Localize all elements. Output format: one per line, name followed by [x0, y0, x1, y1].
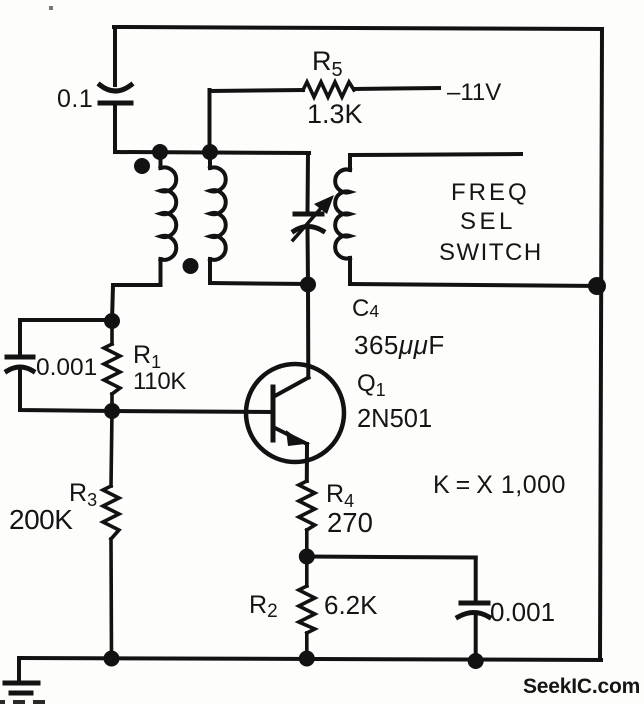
variable capacitor C4 — [294, 214, 323, 231]
wire right cap bottom — [474, 615, 478, 660]
node C4 bottom junction — [300, 277, 316, 293]
node secondary top — [202, 144, 218, 160]
capacitor 0.001 (left) — [7, 357, 33, 371]
transistor Q1 body circle — [246, 364, 344, 462]
wire R1 top node to left cap 0.001 — [20, 320, 112, 356]
wire base from R1 node to Q1 — [112, 411, 272, 412]
svg-text:R2: R2 — [249, 591, 278, 622]
svg-text:6.2K: 6.2K — [324, 590, 378, 620]
node R3 bottom — [104, 651, 120, 667]
Q1 emitter arrowhead (PNP) — [286, 430, 305, 446]
svg-text:270: 270 — [327, 507, 373, 538]
wire top rail — [114, 27, 602, 29]
svg-text:0.001: 0.001 — [490, 597, 555, 627]
resistor R4 — [299, 481, 315, 556]
wire C4 branch bottom — [306, 228, 311, 284]
wire emitter down from Q1 — [305, 444, 309, 481]
wire FREQ coil top — [350, 154, 521, 155]
node base junction — [104, 403, 120, 419]
transformer T1 secondary winding — [210, 152, 226, 283]
transformer T1 primary winding — [161, 152, 177, 285]
node R2 bottom — [299, 651, 315, 667]
wire top of transformer (y152) — [115, 152, 309, 153]
capacitor 0.001 (right) — [458, 603, 489, 617]
svg-text:1.3K: 1.3K — [307, 99, 363, 129]
svg-text:200K: 200K — [9, 504, 73, 535]
resistor R3 — [103, 411, 119, 658]
wire R5 right segment to -11V — [354, 88, 439, 89]
wire R5 left segment — [210, 90, 304, 91]
wire junction to right cap 0.001 — [307, 557, 476, 558]
inductor FREQ SEL winding — [335, 155, 350, 284]
svg-text:0.001: 0.001 — [36, 354, 97, 381]
svg-text:R5: R5 — [312, 46, 343, 81]
svg-text:SEL: SEL — [460, 208, 516, 235]
capacitor 0.1 — [100, 85, 131, 103]
stray scan marks bottom edge — [0, 700, 45, 704]
wire primary bottom to left drop — [112, 285, 161, 321]
svg-text:SeekIC.com: SeekIC.com — [523, 675, 640, 698]
wire C4 branch top (from y152 wire down) — [306, 153, 311, 213]
stray scan speck top left — [49, 6, 53, 10]
svg-text:FREQ: FREQ — [451, 179, 530, 206]
wire FREQ coil bottom to right border — [350, 284, 600, 286]
svg-text:110K: 110K — [133, 368, 186, 395]
wire left rail below C 0.1 down to transformer wire — [113, 104, 117, 152]
svg-text:0.1: 0.1 — [57, 85, 93, 113]
node right border junction — [588, 277, 606, 295]
wire collector from C4 node down to Q1 — [306, 285, 310, 378]
wire bottom rail — [19, 658, 601, 660]
C4 arrow — [293, 195, 334, 240]
node primary top — [152, 144, 168, 160]
wire left cap bottom to base node — [20, 368, 112, 411]
resistor R2 — [299, 557, 315, 659]
Q1 emitter diagonal — [273, 427, 307, 444]
Q1 base bar — [271, 387, 276, 440]
svg-text:C4: C4 — [352, 295, 379, 322]
svg-text:SWITCH: SWITCH — [439, 239, 543, 266]
ground — [5, 658, 38, 693]
wire right cap branch down — [474, 558, 478, 603]
node right cap bottom — [468, 653, 484, 669]
resistor R1 — [104, 321, 120, 411]
resistor R5 zigzag — [303, 82, 354, 97]
node R4/R2 junction — [299, 549, 315, 565]
Q1 collector diagonal — [273, 378, 309, 398]
svg-text:K = X 1,000: K = X 1,000 — [433, 471, 566, 499]
node R1 top — [104, 313, 120, 329]
wire right border — [600, 29, 602, 660]
svg-text:–11V: –11V — [447, 79, 501, 106]
svg-text:365μμF: 365μμF — [354, 330, 445, 360]
svg-text:Q1: Q1 — [357, 370, 386, 400]
wire from secondary top up to R5 rail — [208, 90, 212, 152]
phasing dot primary top — [134, 158, 150, 174]
phasing dot secondary bottom — [183, 258, 199, 274]
wire left rail upper (top to C 0.1) — [113, 27, 117, 85]
wire secondary bottom to C4 node — [210, 283, 308, 284]
svg-text:R3: R3 — [69, 479, 97, 510]
svg-text:2N501: 2N501 — [357, 405, 432, 433]
